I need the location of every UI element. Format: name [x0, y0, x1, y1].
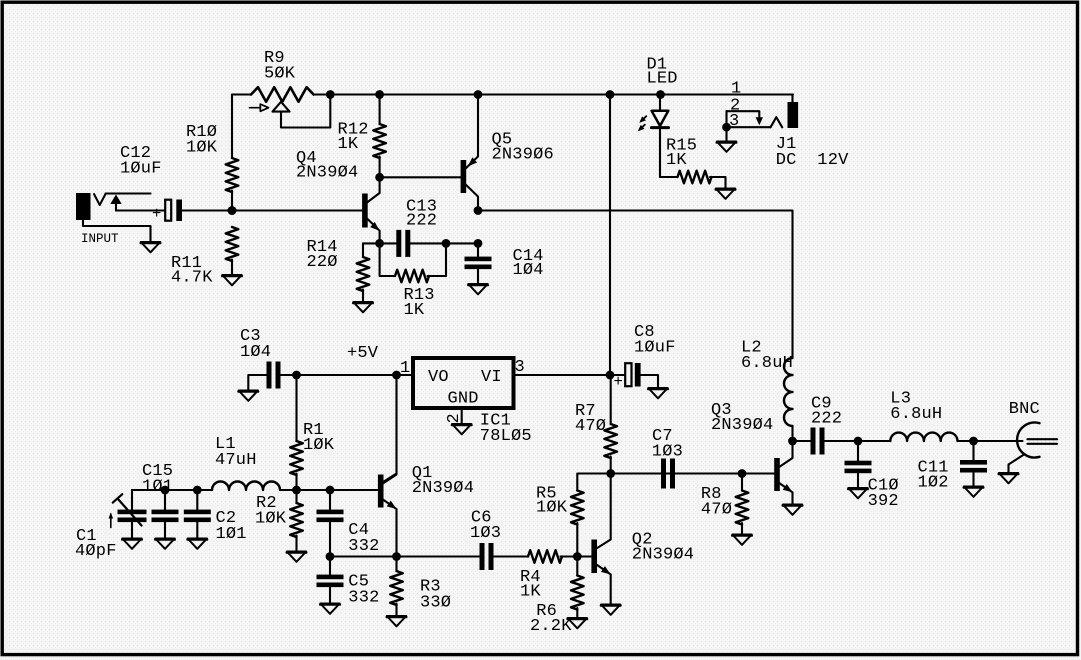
input jack J2 [76, 193, 151, 246]
svg-text:VI: VI [481, 368, 502, 387]
svg-text:47uH: 47uH [215, 451, 257, 470]
capacitor C13 [396, 198, 437, 257]
wire emitter net [363, 242, 478, 244]
svg-text:2N39Ø4: 2N39Ø4 [296, 164, 358, 183]
node C3/R1 [292, 371, 301, 380]
capacitor C6 [470, 509, 501, 571]
ground R11 [222, 275, 241, 285]
svg-text:47Ø: 47Ø [575, 417, 606, 436]
ground R8 [732, 535, 751, 545]
resistor R11 [171, 227, 238, 288]
node R13 right [442, 239, 451, 248]
svg-text:1ØK: 1ØK [255, 510, 287, 529]
wire +12V rail top [330, 93, 793, 95]
wire R10 column [231, 95, 233, 211]
node C15 top [161, 486, 170, 495]
svg-text:1ØuF: 1ØuF [634, 339, 676, 358]
ground input jack [141, 242, 160, 252]
transistor Q4 2N3904 [296, 149, 382, 243]
node C2 top [193, 486, 202, 495]
node pot wiper [326, 90, 335, 99]
svg-text:+5V: +5V [347, 344, 379, 363]
svg-text:DC 12V: DC 12V [776, 151, 849, 170]
capacitor C4 [317, 490, 380, 557]
inductor L3 [890, 390, 957, 442]
svg-text:LED: LED [647, 70, 678, 89]
capacitor C8 [614, 323, 676, 391]
wire emitter rail [330, 555, 528, 557]
ground Q2 emitter [601, 605, 620, 615]
svg-text:222: 222 [811, 410, 842, 429]
node Q3 collector [788, 437, 797, 446]
ground C10 [848, 488, 867, 498]
ground C8 [648, 388, 667, 398]
node R10/R11 [228, 206, 237, 215]
svg-text:1Ø4: 1Ø4 [513, 261, 544, 280]
DC jack J1 [727, 80, 850, 171]
node C8 input [606, 371, 615, 380]
wire Q2 bias rail [577, 474, 774, 491]
svg-text:6.8uH: 6.8uH [890, 405, 942, 424]
ground IC1 [452, 424, 471, 434]
svg-text:332: 332 [348, 537, 379, 556]
wire output rail [793, 440, 1023, 442]
svg-text:1Ø1: 1Ø1 [216, 525, 247, 544]
ground J1 pin3 [717, 142, 736, 152]
capacitor C10 [845, 441, 899, 511]
inductor L2 [741, 339, 793, 442]
ground R6 [568, 618, 587, 628]
svg-text:+: + [614, 373, 623, 391]
node Q2 base [573, 552, 582, 561]
svg-text:1ØK: 1ØK [186, 139, 218, 158]
svg-text:2N39Ø6: 2N39Ø6 [492, 146, 554, 165]
svg-text:1K: 1K [404, 301, 425, 320]
node C14 top [474, 239, 483, 248]
transistor Q2 2N3904 [591, 474, 694, 605]
svg-text:1K: 1K [520, 583, 541, 602]
wire 5V rail [280, 375, 658, 388]
wire input line [116, 209, 363, 211]
svg-text:6.8uH: 6.8uH [741, 354, 793, 373]
svg-text:1Ø4: 1Ø4 [240, 343, 271, 362]
svg-text:1: 1 [400, 359, 410, 378]
node R12 bottom [375, 173, 384, 182]
transistor Q1 2N3904 [378, 464, 474, 557]
ground C3 [239, 391, 258, 401]
wire tank rail [132, 489, 378, 491]
node R8 top [738, 469, 747, 478]
resistor R12 [338, 95, 386, 178]
svg-text:GND: GND [448, 390, 479, 409]
variable capacitor C1 [75, 490, 147, 561]
power label +5V [347, 344, 379, 363]
capacitor C14 [465, 243, 544, 284]
node R1/R2 [292, 486, 301, 495]
node Q1 emitter [392, 552, 401, 561]
svg-text:78LØ5: 78LØ5 [480, 427, 532, 446]
capacitor C3 [240, 327, 281, 391]
potentiometer R9 [232, 49, 330, 128]
svg-text:222: 222 [406, 212, 437, 231]
svg-text:1ØK: 1ØK [303, 436, 335, 455]
transistor Q3 2N3904 [711, 401, 795, 505]
svg-text:1ØK: 1ØK [536, 499, 568, 518]
svg-text:47Ø: 47Ø [701, 501, 732, 520]
svg-text:4.7K: 4.7K [171, 269, 213, 288]
resistor R13 [380, 243, 446, 320]
svg-text:INPUT: INPUT [81, 232, 119, 246]
svg-text:1Ø2: 1Ø2 [918, 474, 949, 493]
capacitor C7 [652, 427, 683, 489]
resistor R3 [390, 557, 451, 617]
ground Q3 emitter [783, 505, 802, 515]
svg-text:VO: VO [428, 368, 449, 387]
node Q1 collector feed [392, 371, 401, 380]
svg-text:1K: 1K [666, 151, 687, 170]
BNC connector [1009, 400, 1058, 473]
svg-text:22Ø: 22Ø [307, 253, 338, 272]
svg-text:3: 3 [515, 358, 525, 377]
ground C15 [155, 539, 174, 549]
resistor R6 [530, 557, 584, 637]
resistor R15 [660, 137, 726, 189]
node D1 anode [656, 90, 665, 99]
node R7/Q2 [606, 469, 615, 478]
node C4/C5 [326, 552, 335, 561]
svg-text:1Ø1: 1Ø1 [142, 478, 173, 497]
svg-text:1Ø3: 1Ø3 [652, 443, 683, 462]
node 12V feed [606, 90, 615, 99]
ground R15 [716, 189, 735, 199]
resistor R14 [307, 238, 370, 302]
LED D1 [636, 56, 678, 178]
svg-text:2N39Ø4: 2N39Ø4 [711, 416, 773, 435]
node C4 top [326, 486, 335, 495]
svg-text:1Ø3: 1Ø3 [470, 524, 501, 543]
svg-text:2.2K: 2.2K [530, 617, 572, 636]
capacitor C9 [811, 395, 843, 455]
ground C5 [320, 604, 339, 614]
wire Q1 collector [383, 375, 396, 482]
resistor R8 [701, 474, 748, 535]
svg-text:33Ø: 33Ø [420, 594, 451, 613]
ground BNC [999, 473, 1018, 483]
resistor R2 [255, 490, 303, 552]
node Q5 emitter rail [474, 90, 483, 99]
svg-text:5ØK: 5ØK [264, 65, 296, 84]
resistor R7 [575, 375, 617, 474]
capacitor C2 [184, 490, 247, 544]
ground C2 [188, 539, 207, 549]
wire Q4-Q5 base [380, 176, 461, 178]
node Q5 collector [474, 206, 483, 215]
node R12 top [375, 90, 384, 99]
node C10 top [854, 437, 863, 446]
svg-text:332: 332 [348, 589, 379, 608]
resistor R5 [536, 485, 584, 557]
svg-text:BNC: BNC [1009, 400, 1040, 419]
capacitor C5 [317, 557, 380, 608]
svg-text:392: 392 [868, 492, 899, 511]
wire 12V feed down [609, 95, 611, 376]
capacitor C11 [918, 441, 988, 493]
wire collector rail right [478, 211, 793, 359]
ground C14 [468, 284, 487, 294]
ground C1 [122, 539, 141, 549]
svg-text:4ØpF: 4ØpF [75, 542, 117, 561]
ground R3 [387, 616, 406, 626]
resistor R4 [520, 550, 592, 601]
svg-text:2N39Ø4: 2N39Ø4 [412, 479, 474, 498]
capacitor C15 [142, 462, 179, 539]
node input/R11 [228, 206, 237, 215]
svg-text:2N39Ø4: 2N39Ø4 [632, 546, 694, 565]
svg-text:1K: 1K [338, 135, 359, 154]
ground R2 [287, 552, 306, 562]
ground R14 [353, 302, 372, 312]
svg-text:1ØuF: 1ØuF [120, 160, 162, 179]
resistor R10 [186, 123, 238, 192]
svg-text:+: + [152, 205, 161, 223]
node C11 top [969, 437, 978, 446]
inductor L1 [212, 435, 280, 490]
resistor R1 [290, 375, 335, 490]
node J1 pin3 [722, 123, 731, 132]
ground C11 [964, 487, 983, 497]
IC1 78L05 [400, 358, 532, 446]
transistor Q5 2N3906 [461, 95, 554, 211]
node Q4 emitter [375, 239, 384, 248]
capacitor C12 [120, 144, 182, 223]
